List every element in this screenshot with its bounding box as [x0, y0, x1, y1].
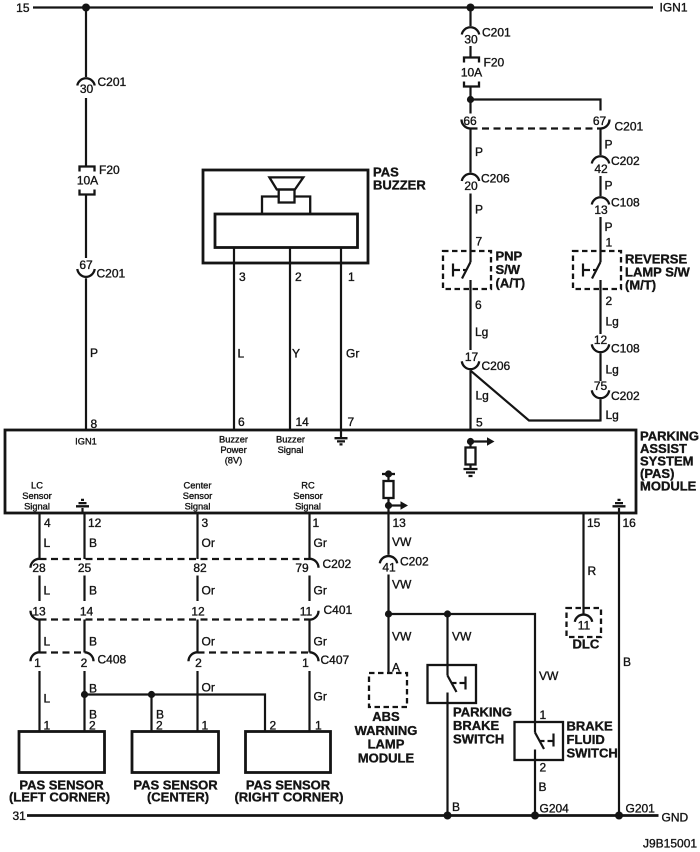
svg-text:F20: F20: [484, 56, 505, 70]
wire Gr to right sensor: [308, 671, 310, 732]
ground internal at pin 16: [613, 500, 626, 513]
wire to PNP switch: [469, 194, 471, 263]
svg-text:Sensor: Sensor: [22, 491, 51, 501]
svg-text:2: 2: [295, 270, 302, 284]
svg-text:DLC: DLC: [573, 637, 600, 652]
node junction below fuse: [467, 96, 474, 103]
switch PNP S/W (A/T): [443, 249, 525, 296]
connector C201 pin 30 right: [462, 26, 511, 47]
svg-text:VW: VW: [452, 630, 472, 644]
wire fuse to junction: [469, 87, 471, 114]
connector C401 row pins 13 14 12 11: [31, 603, 353, 620]
buzzer body: [215, 214, 358, 248]
connector DLC pin 11: [575, 615, 592, 633]
svg-text:28: 28: [32, 561, 46, 575]
svg-text:3: 3: [239, 270, 246, 284]
wire junction to reverse branch: [471, 100, 601, 111]
svg-text:1: 1: [348, 270, 355, 284]
svg-text:Power: Power: [220, 445, 246, 455]
pin LC Sensor Signal label: [22, 481, 51, 512]
svg-text:2: 2: [606, 294, 613, 308]
svg-text:Gr: Gr: [314, 584, 327, 598]
wire VW distribution: [389, 614, 536, 733]
svg-text:LAMP: LAMP: [368, 737, 405, 752]
wire left branch to fuse: [85, 98, 87, 167]
svg-text:2: 2: [195, 656, 202, 670]
svg-text:(RIGHT CORNER): (RIGHT CORNER): [234, 790, 343, 805]
svg-text:1: 1: [34, 656, 41, 670]
svg-text:MODULE: MODULE: [358, 750, 415, 765]
wire PNP to C206: [469, 295, 471, 350]
node parking brake at bus: [444, 812, 452, 820]
svg-text:IGN1: IGN1: [660, 1, 688, 15]
PAS SENSOR right corner label: [234, 778, 343, 805]
svg-text:C401: C401: [324, 603, 353, 617]
svg-text:1: 1: [606, 236, 613, 250]
svg-text:C201: C201: [615, 120, 644, 134]
ground bus 31: [27, 814, 659, 817]
svg-text:15: 15: [16, 1, 30, 15]
switch REVERSE LAMP S/W (M/T): [573, 251, 690, 295]
wire brake fluid to ground G204: [534, 760, 536, 816]
svg-text:Or: Or: [202, 584, 215, 598]
wire C202 41 to ABS module: [387, 575, 389, 674]
svg-text:Or: Or: [202, 536, 215, 550]
svg-text:Lg: Lg: [606, 363, 619, 377]
svg-text:3: 3: [202, 516, 209, 530]
svg-text:7: 7: [476, 235, 483, 249]
svg-text:Gr: Gr: [314, 635, 327, 649]
svg-text:C201: C201: [97, 267, 126, 281]
wire to reverse lamp switch: [599, 217, 601, 262]
module PAS box: [5, 430, 636, 513]
node VW junction parking brake: [444, 610, 451, 617]
svg-text:10A: 10A: [77, 174, 98, 188]
svg-text:B: B: [89, 635, 97, 649]
svg-text:BUZZER: BUZZER: [373, 178, 426, 193]
pin Buzzer Power function label: [219, 435, 248, 466]
svg-text:ABS: ABS: [372, 709, 400, 724]
svg-text:Sensor: Sensor: [183, 491, 212, 501]
svg-text:16: 16: [623, 516, 637, 530]
svg-text:R: R: [588, 564, 597, 578]
PAS SENSOR left corner label: [9, 778, 110, 805]
buzzer speaker cone: [269, 177, 303, 189]
svg-text:(CENTER): (CENTER): [147, 790, 209, 805]
svg-text:Lg: Lg: [606, 315, 619, 329]
PAS SENSOR center box: [132, 732, 219, 773]
connector C202 row pins 28 25 82 79: [31, 557, 352, 575]
svg-text:B: B: [452, 800, 460, 814]
wire VW to parking brake switch: [446, 614, 448, 676]
PAS SENSOR left corner box: [19, 732, 105, 773]
connector C206 pin 20: [462, 172, 510, 194]
wire buzzer pin 1 Gr: [340, 248, 342, 431]
svg-text:4: 4: [44, 516, 51, 530]
svg-text:30: 30: [80, 82, 94, 96]
wire right branch upper: [469, 8, 471, 27]
svg-text:L: L: [238, 347, 245, 361]
connector C206 pin 17: [462, 350, 511, 373]
connector C108 pin 12: [592, 333, 640, 356]
svg-text:67: 67: [79, 258, 93, 272]
svg-text:Center: Center: [184, 481, 212, 491]
arrow internal pin 13: [389, 501, 409, 509]
svg-text:P: P: [90, 346, 98, 360]
wire B sensor segment 2: [83, 576, 85, 602]
svg-text:C407: C407: [321, 653, 350, 667]
svg-text:6: 6: [238, 415, 245, 429]
wire Or sensor segment 2: [196, 576, 198, 602]
svg-text:17: 17: [465, 350, 479, 364]
wire IGN1 feed bus: [33, 6, 653, 8]
svg-text:VW: VW: [392, 535, 412, 549]
wire pin 13 VW: [387, 513, 389, 555]
node junction left branch: [82, 4, 90, 12]
wire B sensor segment 3: [83, 620, 85, 653]
wire right branch to fuse: [469, 46, 471, 58]
svg-text:VW: VW: [539, 669, 559, 683]
svg-text:C202: C202: [400, 555, 429, 569]
svg-text:Lg: Lg: [475, 325, 488, 339]
svg-text:L: L: [44, 635, 51, 649]
wire reverse branch P: [599, 130, 601, 156]
svg-text:LC: LC: [31, 481, 43, 491]
svg-text:IGN1: IGN1: [75, 437, 97, 447]
svg-text:67: 67: [593, 114, 607, 128]
svg-text:C206: C206: [482, 359, 511, 373]
svg-text:2: 2: [81, 656, 88, 670]
connector C201 row pins 66 67: [462, 114, 644, 134]
svg-text:11: 11: [578, 619, 591, 633]
wire Gr sensor segment 3: [308, 620, 310, 653]
svg-text:12: 12: [594, 333, 608, 347]
fuse F20 left 10A: [77, 163, 120, 195]
wire buzzer pin 2 Y: [289, 248, 291, 431]
wire reverse to C108: [599, 295, 601, 334]
svg-text:RC: RC: [301, 481, 315, 491]
svg-text:1: 1: [313, 516, 320, 530]
wire B to left sensor: [83, 671, 85, 732]
svg-text:B: B: [623, 655, 631, 669]
wire Or sensor segment 1: [196, 513, 198, 559]
svg-text:Signal: Signal: [295, 502, 321, 512]
connector C201 pin 30 left: [77, 75, 126, 96]
buzzer pedestal: [262, 197, 310, 215]
wire Gr sensor segment 2: [308, 576, 310, 602]
wire C202 to corner: [599, 399, 601, 421]
svg-text:1: 1: [540, 708, 547, 722]
svg-text:25: 25: [78, 561, 92, 575]
svg-text:Buzzer: Buzzer: [219, 435, 248, 445]
svg-text:11: 11: [300, 605, 313, 619]
svg-text:30: 30: [464, 33, 478, 47]
svg-text:Signal: Signal: [185, 502, 211, 512]
svg-text:L: L: [44, 692, 51, 706]
arrow internal pin 5: [471, 437, 495, 445]
wire B sensor segment 1: [83, 513, 85, 559]
connector C407 row pins 2 1: [189, 652, 350, 670]
wire left branch below fuse: [85, 195, 87, 259]
svg-text:Signal: Signal: [24, 502, 50, 512]
svg-text:Signal: Signal: [278, 445, 304, 455]
wire L sensor segment 3: [38, 620, 40, 653]
svg-text:6: 6: [475, 298, 482, 312]
connector C202 pin 42: [592, 154, 640, 176]
pin Center Sensor Signal label: [183, 481, 212, 512]
wire to C108: [599, 176, 601, 196]
node B at center: [148, 691, 155, 698]
svg-text:1: 1: [302, 656, 309, 670]
wire B crossover to center and right sensors: [85, 695, 266, 732]
svg-text:Sensor: Sensor: [293, 491, 322, 501]
svg-text:VW: VW: [392, 630, 412, 644]
buzzer speaker neck: [279, 190, 295, 203]
connector C202 pin 75: [592, 379, 640, 403]
node G201: [615, 812, 623, 820]
svg-text:79: 79: [295, 561, 309, 575]
svg-text:(A/T): (A/T): [496, 276, 526, 291]
svg-text:GND: GND: [662, 811, 689, 825]
svg-text:C108: C108: [611, 196, 640, 210]
svg-text:Lg: Lg: [476, 389, 489, 403]
svg-text:C201: C201: [482, 26, 511, 40]
wire B to center sensor: [150, 695, 152, 732]
svg-text:B: B: [89, 536, 97, 550]
svg-text:B: B: [539, 780, 547, 794]
svg-text:C202: C202: [611, 154, 640, 168]
svg-text:L: L: [44, 536, 51, 550]
svg-text:C206: C206: [481, 172, 510, 186]
power tap internal at pin 13: [382, 470, 395, 481]
pin RC Sensor Signal label: [293, 481, 322, 512]
node junction right branch: [467, 4, 475, 12]
ground internal at pin 7: [335, 430, 348, 444]
svg-text:L: L: [44, 584, 51, 598]
svg-text:Gr: Gr: [314, 536, 327, 550]
PAS BUZZER box: [203, 170, 368, 263]
svg-text:SWITCH: SWITCH: [567, 746, 618, 761]
node VW junction left: [385, 610, 392, 617]
PAS SENSOR right corner box: [246, 732, 331, 773]
svg-text:10A: 10A: [461, 66, 482, 80]
svg-text:82: 82: [193, 561, 207, 575]
connector C408 row pins 1 2: [31, 652, 127, 670]
svg-text:J9B15001: J9B15001: [643, 837, 697, 851]
wire L sensor segment 2: [38, 576, 40, 602]
svg-text:P: P: [475, 203, 483, 217]
node internal pin 5: [467, 438, 474, 445]
svg-text:P: P: [605, 220, 613, 234]
wire Gr sensor segment 1: [308, 513, 310, 559]
svg-text:12: 12: [191, 605, 205, 619]
wire L to left sensor: [38, 671, 40, 732]
svg-text:(8V): (8V): [225, 455, 243, 465]
svg-text:SWITCH: SWITCH: [453, 732, 504, 747]
svg-text:41: 41: [382, 561, 396, 575]
svg-text:(M/T): (M/T): [625, 278, 656, 293]
svg-text:14: 14: [80, 605, 94, 619]
connector C202 pin 41: [380, 555, 429, 575]
svg-text:Lg: Lg: [606, 408, 619, 422]
resistor internal pin 13: [384, 481, 394, 513]
fuse F20 right 10A: [461, 56, 505, 87]
svg-text:(LEFT CORNER): (LEFT CORNER): [9, 790, 110, 805]
svg-text:WARNING: WARNING: [355, 723, 418, 738]
wire PNP branch P: [469, 130, 471, 173]
svg-text:75: 75: [594, 379, 608, 393]
svg-text:Y: Y: [292, 347, 300, 361]
svg-text:Buzzer: Buzzer: [276, 435, 305, 445]
wire buzzer pin 3 L: [233, 248, 235, 431]
svg-text:15: 15: [587, 516, 601, 530]
svg-text:P: P: [605, 179, 613, 193]
connector C201 pin 67 left: [77, 258, 125, 281]
svg-text:G204: G204: [540, 802, 570, 816]
PAS SENSOR center label: [133, 778, 218, 805]
ground internal at pin 12: [76, 500, 89, 513]
svg-text:B: B: [89, 584, 97, 598]
svg-text:P: P: [605, 138, 613, 152]
svg-text:13: 13: [32, 605, 46, 619]
svg-text:31: 31: [13, 809, 27, 823]
svg-text:C108: C108: [611, 342, 640, 356]
svg-text:13: 13: [594, 203, 608, 217]
node B at left: [81, 691, 88, 698]
wire left branch upper: [85, 8, 87, 78]
ABS WARNING LAMP MODULE label: [355, 709, 418, 765]
wire parking brake to ground bus: [446, 693, 448, 816]
wire C108 to C202: [599, 353, 601, 381]
svg-text:12: 12: [88, 516, 102, 530]
DLC box: [567, 608, 602, 637]
wire C206 to module pin 5: [469, 370, 471, 430]
svg-text:C201: C201: [98, 75, 127, 89]
resistor internal pin 5: [466, 442, 476, 469]
node internal pin 13: [385, 502, 392, 509]
switch PARKING BRAKE: [428, 665, 512, 747]
svg-text:Or: Or: [202, 635, 215, 649]
svg-text:Gr: Gr: [314, 690, 327, 704]
svg-text:5: 5: [476, 416, 483, 430]
wire pin 16 B to ground G201: [618, 513, 620, 816]
svg-text:20: 20: [464, 179, 478, 193]
wire pin 15 R to DLC: [582, 513, 584, 614]
svg-text:P: P: [475, 145, 483, 159]
svg-text:F20: F20: [99, 163, 120, 177]
svg-text:2: 2: [540, 761, 547, 775]
wire L sensor segment 1: [38, 513, 40, 559]
wire Or to center sensor: [196, 671, 198, 732]
wire diagonal reverse lamp to pin 5: [471, 371, 601, 421]
connector C108 pin 13: [592, 196, 640, 218]
switch BRAKE FLUID: [515, 719, 618, 761]
ABS WARNING LAMP MODULE box: [369, 673, 407, 707]
svg-text:C202: C202: [323, 557, 352, 571]
svg-text:C408: C408: [98, 653, 127, 667]
svg-text:MODULE: MODULE: [640, 479, 697, 494]
svg-text:7: 7: [348, 415, 355, 429]
svg-text:C202: C202: [611, 389, 640, 403]
svg-text:Gr: Gr: [346, 347, 359, 361]
wire Or sensor segment 3: [196, 620, 198, 653]
svg-text:G201: G201: [626, 802, 656, 816]
pin Buzzer Signal function label: [276, 435, 305, 456]
svg-text:14: 14: [296, 415, 310, 429]
svg-text:VW: VW: [392, 578, 412, 592]
node G204: [531, 812, 539, 820]
svg-text:13: 13: [393, 516, 407, 530]
svg-text:42: 42: [594, 162, 608, 176]
module PAS label: [640, 429, 699, 494]
ground internal pin 5: [464, 469, 478, 476]
svg-text:Or: Or: [202, 681, 215, 695]
wire P to module pin 8: [85, 278, 87, 430]
